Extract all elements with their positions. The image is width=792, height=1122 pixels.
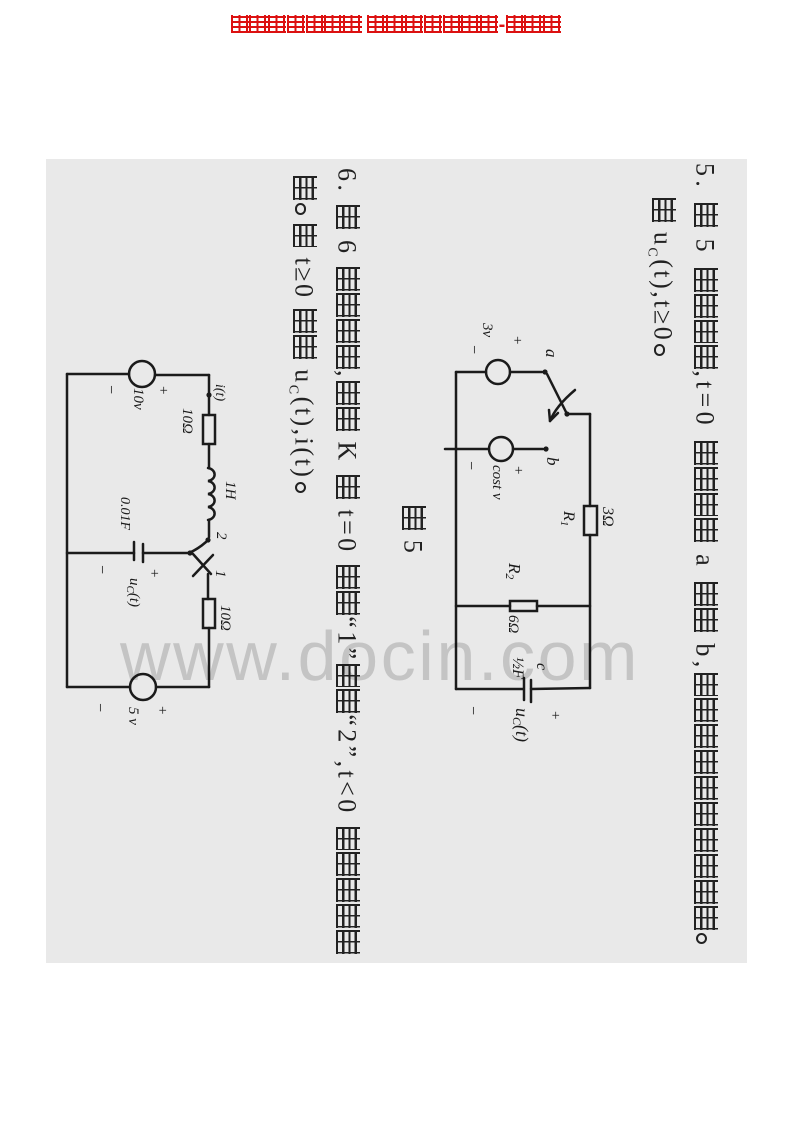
right rail lower xyxy=(456,688,523,691)
switch contact 2 xyxy=(205,532,229,543)
svg-text:+: + xyxy=(509,335,525,345)
svg-text:10Ω: 10Ω xyxy=(179,408,195,434)
voltage source cos t V xyxy=(462,437,526,500)
svg-text:+: + xyxy=(547,710,563,720)
wire b to cos source xyxy=(513,448,543,451)
top rail segment with node i(t) xyxy=(206,375,227,415)
svg-text:1H: 1H xyxy=(222,481,238,501)
problem 5 text line 2 xyxy=(639,197,677,364)
problem 5 text line 1 xyxy=(692,163,718,952)
svg-text:5 v: 5 v xyxy=(125,707,141,725)
svg-text:0.01F: 0.01F xyxy=(117,497,132,531)
svg-text:−: − xyxy=(464,705,481,716)
svg-text:−: − xyxy=(462,460,479,471)
right rail lower circuit 6 xyxy=(67,686,130,689)
wire a to 3V source xyxy=(510,371,542,374)
svg-text:uC(t): uC(t) xyxy=(510,708,532,742)
scanned gray page xyxy=(46,159,747,963)
svg-text:1: 1 xyxy=(212,570,228,578)
problem 6 text line 2 xyxy=(280,175,318,501)
bottom rail circuit 6 xyxy=(66,374,69,687)
switch motion arrow xyxy=(549,390,575,421)
svg-text:3Ω: 3Ω xyxy=(599,506,616,527)
capacitor branch lower wire xyxy=(67,552,134,555)
switch pole dot xyxy=(564,411,569,416)
resistor R1 3 ohm xyxy=(558,506,616,535)
switch K arm and cross xyxy=(187,542,228,578)
wire pole to top rail xyxy=(569,413,590,416)
svg-text:+: + xyxy=(155,385,171,395)
top rail right segment xyxy=(589,535,592,688)
node a xyxy=(542,349,561,375)
inductor 1H xyxy=(208,468,238,520)
resistor R2 branch upper wire xyxy=(537,605,590,608)
svg-text:3v: 3v xyxy=(479,322,495,338)
circuit 6 top-left corner wire xyxy=(155,374,209,377)
capacitor C 1/2 F xyxy=(509,657,550,702)
resistor 10 ohm upper-right xyxy=(203,599,233,631)
svg-text:+: + xyxy=(154,705,170,715)
resistor 10 ohm upper-left xyxy=(179,408,215,444)
capacitor voltage label uc(t) xyxy=(464,705,563,742)
voltage source 10V xyxy=(102,361,171,410)
left rail lower circuit 6 xyxy=(67,373,129,376)
resistor R2 branch lower wire xyxy=(456,605,510,608)
svg-text:−: − xyxy=(91,702,108,713)
svg-text:R2: R2 xyxy=(503,562,524,579)
figure 5 caption xyxy=(400,505,426,555)
svg-text:+: + xyxy=(510,465,526,475)
wire cos source to bottom rail xyxy=(445,448,489,451)
voltage source 3V xyxy=(465,322,525,384)
svg-text:2: 2 xyxy=(213,532,229,540)
svg-text:−: − xyxy=(465,344,482,355)
svg-text:−: − xyxy=(93,564,110,575)
bottom rail circuit 5 xyxy=(455,372,458,689)
right rail upper circuit 6 xyxy=(156,686,209,689)
svg-text:R1: R1 xyxy=(558,510,577,526)
wire resistor to inductor xyxy=(208,444,211,468)
wire 3V source to bottom rail xyxy=(456,371,486,374)
resistor R2 6 ohm xyxy=(503,562,537,634)
svg-text:+: + xyxy=(146,568,162,578)
svg-text:−: − xyxy=(102,384,119,395)
svg-text:i(t): i(t) xyxy=(212,384,227,401)
capacitor voltage uc(t) circuit 6 xyxy=(93,564,162,607)
wire resistor to top-right corner xyxy=(208,628,211,687)
wire inductor to contact 2 xyxy=(208,520,211,537)
capacitor 0.01F xyxy=(117,497,143,562)
voltage source 5V xyxy=(91,674,170,725)
svg-text:a: a xyxy=(542,349,561,358)
switch arm a to pole xyxy=(547,374,566,412)
problem 6 text line 1 xyxy=(334,168,360,955)
svg-text:cost v: cost v xyxy=(489,465,505,500)
svg-text:uC(t): uC(t) xyxy=(124,578,142,607)
top rail left segment xyxy=(589,414,592,506)
node b xyxy=(543,446,562,465)
red promo header xyxy=(0,14,792,37)
capacitor branch upper wire xyxy=(143,552,192,555)
svg-text:b: b xyxy=(543,457,562,466)
wire contact 1 to resistor xyxy=(207,574,210,599)
right rail upper xyxy=(531,688,590,689)
svg-text:10v: 10v xyxy=(130,388,146,410)
watermark xyxy=(120,616,640,696)
